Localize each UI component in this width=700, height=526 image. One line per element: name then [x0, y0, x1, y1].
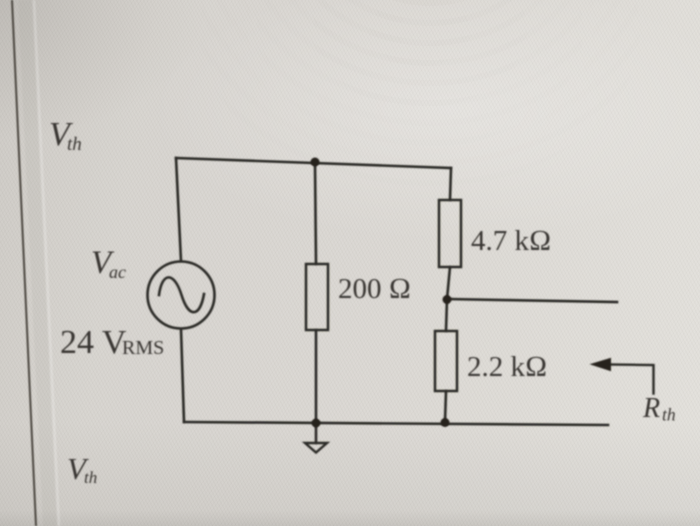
- wire middle-vertical-bottom: [315, 330, 318, 423]
- svg-text:th: th: [84, 468, 97, 487]
- node junction bottom-right: [441, 418, 450, 427]
- wire left-vertical-top: [176, 158, 181, 261]
- ground symbol: [305, 443, 327, 453]
- node junction output: [443, 295, 452, 304]
- wire node output horizontal: [447, 299, 617, 302]
- wire top: [176, 158, 451, 168]
- ground stub wire: [315, 423, 318, 443]
- resistor 200 ohm body: [306, 264, 328, 330]
- ac source Vac sine waveform: [159, 277, 204, 312]
- Rth probe arrow line: [607, 365, 654, 394]
- wire right-vertical-top: [450, 168, 451, 200]
- ac source Vac circle: [148, 262, 215, 329]
- svg-text:2.2 kΩ: 2.2 kΩ: [467, 351, 547, 383]
- wire middle-vertical-top: [315, 162, 316, 264]
- wire between 4.7k and node: [447, 267, 450, 299]
- resistor 2.2 kohm body: [435, 331, 457, 391]
- wire node to 2.2k: [446, 299, 447, 331]
- svg-text:ac: ac: [109, 262, 126, 282]
- svg-text:200 Ω: 200 Ω: [338, 273, 411, 305]
- page edge line (left margin crease): [12, 0, 59, 526]
- wire 2.2k to bottom: [445, 391, 446, 422]
- wire left-vertical-bottom: [181, 329, 184, 422]
- svg-text:4.7 kΩ: 4.7 kΩ: [471, 225, 551, 257]
- node junction top: [311, 158, 320, 167]
- svg-text:RMS: RMS: [122, 337, 164, 359]
- svg-text:R: R: [642, 393, 660, 424]
- Rth arrow head: [590, 358, 612, 371]
- svg-text:24 V: 24 V: [60, 324, 127, 361]
- node junction bottom-mid: [312, 419, 321, 428]
- resistor 4.7 kohm body: [439, 200, 461, 267]
- wire bottom: [184, 422, 608, 425]
- svg-text:th: th: [67, 134, 82, 155]
- svg-text:th: th: [662, 405, 676, 425]
